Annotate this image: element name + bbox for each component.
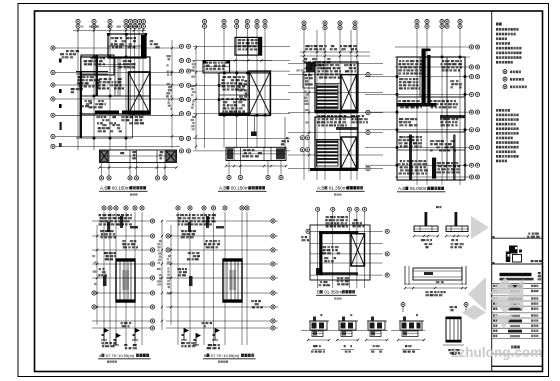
svg-text:A,B: A,B: [100, 186, 107, 191]
plan 2 footing dimension line: [225, 165, 287, 167]
detail D1 left footing section: [414, 212, 438, 232]
svg-text:B: B: [317, 290, 320, 295]
plan 4 title: [397, 186, 446, 192]
plan 5 stair core outline: [116, 259, 135, 302]
svg-text:A,B: A,B: [398, 186, 405, 191]
plan 3 upper stair flight bars: [317, 85, 339, 109]
plan 1 left axis bubbles: [51, 46, 55, 149]
plan 1 footing dimension line: [98, 166, 177, 168]
plan 3 lower stair flight bars: [317, 140, 339, 166]
plan 6 column grid horizontals: [166, 221, 278, 328]
plan 5 top axis bubbles: [102, 206, 144, 210]
plan 7 bottom dark band: [319, 272, 358, 275]
plan 3 bottom dark band: [310, 127, 358, 171]
plan 1 right vertical dimension line: [166, 40, 173, 148]
plan 2 bottom dark band: [219, 113, 249, 116]
plan 4 body outline: [397, 57, 465, 180]
plan 3 lower block outline: [315, 117, 358, 168]
plan 1 left wall piers: [59, 59, 62, 148]
detail D2 ticks and label: [404, 287, 467, 297]
svg-text:±zhulong.com: ±zhulong.com: [451, 345, 542, 360]
architect logo glyph: [506, 246, 522, 263]
plan 7 X-braced wall: [351, 234, 365, 266]
detail D1 right dimension: [445, 235, 469, 241]
plan 6 column grid verticals: [178, 212, 247, 345]
plan 2 main body outline: [219, 73, 270, 116]
svg-text:07.75~10.55(m): 07.75~10.55(m): [106, 353, 135, 358]
title block rule under logo: [492, 260, 543, 264]
notes legend symbols: [503, 70, 527, 89]
title block row stamps: [493, 285, 538, 338]
plan 4 lower labels: [398, 136, 460, 175]
svg-text:A,B: A,B: [219, 186, 226, 191]
title block top rule: [492, 233, 543, 239]
plan 6 bottom footing symbols: [181, 300, 263, 349]
plan 2 X-braced shear wall: [249, 71, 270, 115]
plan 1 dark wall pier top-right: [141, 35, 146, 58]
plan 3 mid labels: [317, 115, 368, 127]
plan 2 column grid verticals: [205, 28, 266, 148]
plan 5 upper labels: [98, 214, 138, 260]
plan 2 upper dimension ticks: [226, 59, 272, 61]
plan 5 bottom footing symbols: [101, 322, 140, 349]
plan 7 top axis bubbles: [316, 207, 367, 211]
plan 1 lower left labels: [80, 102, 122, 132]
detail D1 labels: [424, 206, 463, 248]
plan 6 top axis bubbles: [176, 206, 249, 210]
plan 3 column grid horizontals: [288, 64, 383, 169]
plan 3 upper X-braced wall: [341, 75, 357, 111]
notes block 1 lines: [496, 28, 522, 64]
plan 1 scale note: [130, 194, 137, 196]
plan 5 sheet count note: [107, 361, 117, 363]
plan 1 footing axis bubbles: [99, 163, 167, 181]
plan 4 dark elevator walls: [396, 49, 465, 179]
plan 6 beam marks: [188, 216, 224, 232]
plan 1 footing strip marks: [101, 151, 176, 162]
detail D1 left dimension: [413, 235, 439, 241]
plan 3 scale note: [334, 194, 341, 196]
project name dark bar: [500, 273, 532, 276]
wall detail C5 outline: [443, 306, 464, 345]
plan 4 upper labels: [398, 60, 462, 90]
plan 1 column grid horizontals: [53, 48, 180, 146]
wall detail C5 label: [448, 349, 460, 355]
plan 5 left axis bubbles: [92, 291, 96, 309]
plan 5 column grid horizontals: [92, 221, 155, 328]
plan 3 column grid verticals: [304, 30, 357, 180]
svg-text:01.350m: 01.350m: [324, 290, 342, 295]
plan 7 column grid horizontals: [310, 231, 383, 275]
plan 1 upper room labels: [60, 37, 160, 58]
plan 1 title: [99, 186, 148, 192]
plan 7 labels above beam: [325, 216, 364, 228]
plan 4 column grid horizontals: [365, 47, 470, 177]
plan 1 top dimension line: [73, 26, 146, 32]
watermark logo triangles: [462, 216, 524, 329]
notes block 1 heading: [496, 23, 502, 26]
plan 4 top axis bubbles: [415, 19, 462, 28]
svg-text:00.150m: 00.150m: [231, 186, 249, 191]
plan 2 upper room labels: [238, 39, 259, 51]
plan 5 beam marks: [107, 216, 138, 232]
plan 7 right axis bubbles: [385, 229, 389, 277]
plan 2 column grid horizontals: [193, 46, 290, 151]
plan 2 upper room block walls: [235, 37, 262, 55]
plan 1 bottom dark wall band: [95, 111, 149, 115]
svg-text:A,B: A,B: [317, 186, 324, 191]
plan 7 top dark beam: [319, 231, 358, 234]
detail D1 right footing section: [446, 212, 468, 232]
detail D2 beam outline: [405, 266, 466, 285]
plan 6 upper labels: [176, 214, 220, 260]
plan 4 body pier marks: [396, 56, 467, 167]
plan 1 main body outline: [76, 33, 150, 138]
plan 1 upper-right room block walls: [108, 34, 146, 58]
plan 2 title: [218, 186, 267, 192]
plan 6 title: [203, 353, 256, 359]
plan 6 left axis bubbles: [166, 234, 170, 252]
plan 3 left axis bubbles: [300, 136, 309, 152]
svg-text:01.350m: 01.350m: [329, 186, 347, 191]
plan 1 footing strip outline: [100, 150, 177, 163]
plan 4 lower walls: [397, 135, 465, 181]
plan 3 right axis bubbles: [366, 73, 370, 171]
plan 5 right axis bubbles: [150, 219, 154, 330]
plan 2 leader below body: [251, 115, 257, 136]
plan 5 core dark caps: [116, 259, 135, 302]
plan 1 mid-left block walls: [76, 55, 114, 96]
plan 4 right axis bubbles: [469, 45, 479, 179]
plan 6 sheet count note: [218, 361, 228, 363]
plan 7 body outline: [310, 225, 370, 280]
detail D2 inner marks: [424, 272, 444, 283]
plan 6 stair core outline: [223, 259, 242, 302]
plan 7 labels interior: [301, 236, 340, 262]
plan 7 column grid verticals: [318, 212, 365, 288]
drawing number cell: [492, 346, 543, 355]
project name dark bar 2: [500, 272, 542, 280]
plan 7 left dark wall: [316, 231, 322, 275]
plan 2 main body labels: [221, 76, 247, 113]
plan 5 left dimension string: [92, 225, 98, 325]
plan 3 left dimension strings: [296, 60, 310, 172]
plan 2 right dimension line: [281, 117, 289, 150]
plan 3 lower X-braced wall: [341, 137, 357, 168]
plan 2 left wing walls: [203, 61, 230, 73]
plan 1 footing strip dividers: [109, 150, 165, 163]
notes block 2 lines: [496, 109, 519, 162]
plan 2 footing strip outline: [226, 147, 286, 160]
plan 3 mid dark band: [315, 110, 358, 113]
plan 6 left dimension string: [167, 225, 173, 325]
title block row rules: [492, 283, 543, 338]
plan 3 top dimension rows: [300, 45, 370, 70]
plan 7 labels bottom: [319, 277, 350, 286]
plan 3 upper labels: [317, 64, 356, 79]
plan 1 X-braced shear wall: [129, 72, 151, 114]
plan 1 body pier marks: [80, 56, 128, 140]
plan 1 lower labels: [71, 88, 144, 124]
plan 5 title: [98, 353, 151, 359]
plan 7 title: [316, 290, 357, 296]
section cut mark above C5: [464, 303, 468, 313]
svg-text:05.000m: 05.000m: [410, 186, 428, 191]
plan 5 column grid verticals: [104, 212, 142, 345]
plan 7 scale note: [334, 298, 341, 300]
plan 2 left axis bubbles: [179, 44, 190, 153]
plan 1 mid-left labels: [77, 57, 105, 88]
section cut mark above C4: [401, 303, 405, 313]
column detail C3: [359, 317, 388, 353]
column detail C2: [330, 314, 359, 353]
dimension string between plan 5 and plan 6: [157, 220, 163, 330]
title strip divider: [491, 11, 493, 372]
svg-text:07.75~10.55(m): 07.75~10.55(m): [211, 353, 240, 358]
dimension string between plan 1 and plan 2: [191, 45, 198, 150]
plan 2 footing axis bubbles: [227, 161, 283, 180]
plan 2 body pier marks: [218, 72, 267, 117]
plan 3 upper block outline: [303, 62, 358, 112]
plan 3 top axis bubbles: [302, 21, 357, 30]
plan 2 footing strip dividers: [227, 147, 285, 160]
plan 3 title: [316, 186, 365, 192]
plan 6 right axis bubbles: [271, 219, 275, 330]
column detail C1: [301, 314, 330, 353]
plan 1 column grid verticals: [78, 28, 143, 150]
plan 4 mid labels: [398, 100, 458, 126]
plan 6 mid column mark: [177, 268, 192, 286]
plan 2 top axis bubbles: [202, 19, 267, 28]
title block bottom rules: [492, 365, 543, 367]
plan 1 top axis bubbles: [76, 19, 146, 28]
column detail C4: [391, 314, 425, 353]
plan 6 core dark caps: [223, 259, 242, 302]
plan 7 left axis bubble: [306, 229, 310, 233]
plan 1 central labels: [85, 60, 136, 108]
svg-text:00.150m: 00.150m: [112, 186, 130, 191]
plan 5 left column marks: [98, 268, 107, 286]
plan 4 column grid verticals: [417, 27, 460, 185]
